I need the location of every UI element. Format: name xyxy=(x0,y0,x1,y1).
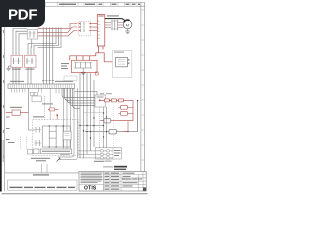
dashed feeders to bottom boxes xyxy=(21,137,27,151)
diode module D1 xyxy=(85,121,138,134)
label box above strip right xyxy=(64,76,77,81)
wire under PDF badge drop group xyxy=(43,27,53,84)
title block dark corner cell xyxy=(143,188,146,192)
controller internal rails xyxy=(42,126,70,147)
relay K3 red box xyxy=(25,55,37,67)
paper background xyxy=(0,0,149,198)
wire L2 feeder rail xyxy=(38,27,78,32)
wire fuse to bus L3 xyxy=(91,30,98,32)
label left of rectifier xyxy=(61,63,69,69)
switch S2 red mid xyxy=(48,108,59,120)
svg-text:OTIS: OTIS xyxy=(84,186,97,192)
title block grid rows xyxy=(104,172,147,192)
title block field texts xyxy=(105,173,138,190)
interface box A2 xyxy=(95,95,106,107)
label text mid xyxy=(42,103,53,104)
brake unit A1 outer box xyxy=(113,51,132,78)
header strip bottom line xyxy=(5,5,145,7)
bottom frame line above footer xyxy=(5,172,147,174)
resistor R3 xyxy=(119,99,124,102)
contactor K1 contacts xyxy=(111,20,119,30)
breaker pairs on rows xyxy=(100,150,110,159)
rectifier T1 red box xyxy=(72,60,98,72)
notes box bottom left xyxy=(8,180,78,190)
ground of rectifier xyxy=(81,71,86,75)
PCB box M xyxy=(96,148,122,159)
right margin zone ticks xyxy=(141,10,145,160)
black tie wire xyxy=(137,100,138,132)
wire drop mid xyxy=(49,88,51,119)
wire strip to interface box xyxy=(75,92,98,96)
title block left notes cell xyxy=(79,172,104,192)
controller bottom small boxes xyxy=(34,149,40,154)
wire rectifier supply bridge xyxy=(70,53,99,61)
terminal squares below strip xyxy=(30,92,33,95)
label above motor feed xyxy=(107,15,119,16)
arrow symbol under box xyxy=(57,158,61,162)
wires to frame bottom xyxy=(42,164,48,173)
resistor R2 xyxy=(112,99,117,102)
wire contactor to motor xyxy=(118,22,124,27)
resistor chain red row xyxy=(99,99,133,102)
wires switch to relay K2 xyxy=(13,29,27,56)
wire long drop left xyxy=(27,88,29,112)
wire fuse to bus L2 xyxy=(91,26,98,28)
footer caption text xyxy=(33,174,49,175)
wire L1 feeder rail xyxy=(38,24,78,29)
connector rows xyxy=(79,151,114,158)
wire relay drops to terminal strip xyxy=(13,67,31,84)
page bottom shadow xyxy=(2,193,148,194)
label left mid small xyxy=(8,142,15,143)
title block label cells fill xyxy=(104,172,121,191)
motor M1 xyxy=(123,20,132,29)
ground left of relay K2 xyxy=(6,66,11,71)
drawing frame right inner border xyxy=(140,2,142,173)
relay K2 red box xyxy=(11,55,23,67)
wires interface down to PCB box xyxy=(104,107,107,148)
disconnect switch Q1 xyxy=(27,30,37,39)
labels above interface xyxy=(100,92,112,95)
scan black left edge xyxy=(0,0,2,192)
bundle A strip drops to interface xyxy=(62,88,95,108)
left margin zone marks xyxy=(3,30,4,158)
wire fuse to bus L1 xyxy=(91,23,98,25)
wire left drop continues xyxy=(28,113,34,130)
wire bus to contactor phase lines xyxy=(105,22,111,27)
terminal bus X0 tall red box xyxy=(97,15,105,46)
varistor RV1 on red return xyxy=(104,118,111,123)
dashed zone divider xyxy=(113,105,115,147)
fuse block F1 dashed box xyxy=(79,21,91,36)
capacitor module C2 xyxy=(118,111,133,115)
relay labels xyxy=(12,69,35,70)
controller U1 dashed box xyxy=(33,120,78,156)
bundle B verticals into control box xyxy=(58,88,78,159)
junction box small xyxy=(32,96,41,102)
controller sub box 2 xyxy=(63,131,71,140)
wire red bus drop to brake rectifier xyxy=(99,46,114,62)
labels above terminal strip xyxy=(10,81,73,82)
label below connector rows xyxy=(94,161,104,162)
header cell dividers xyxy=(45,2,137,6)
terminal strip X1 xyxy=(8,84,75,88)
wire PE thick feed to motor xyxy=(105,19,126,21)
ladder drops rectifier to connector rows xyxy=(80,73,94,158)
svg-text:BRAKE CIRCUIT: BRAKE CIRCUIT xyxy=(122,177,142,181)
svg-text:M: M xyxy=(126,23,129,28)
frame top line xyxy=(5,1,145,3)
left margin rotated text xyxy=(3,140,4,162)
title block outer xyxy=(79,172,146,192)
capacitor module C1 xyxy=(118,105,133,109)
wire L3 feeder rail xyxy=(38,31,78,36)
wire dashed drop xyxy=(44,96,46,120)
controller sub box 1 xyxy=(49,131,56,138)
short drops below strip xyxy=(12,88,60,93)
controller bottom connector strip xyxy=(41,149,72,154)
left frame tiny labels mid xyxy=(6,117,10,141)
wire red bus stub xyxy=(102,46,104,50)
dashed riser at interface xyxy=(99,107,101,148)
pressure switch B1 red xyxy=(6,107,29,116)
contact set left in controller xyxy=(35,127,42,146)
wire red right loop xyxy=(100,100,133,120)
resistor R1 xyxy=(105,99,110,102)
brake coil Y1 inner box xyxy=(116,58,130,67)
customer note above title block xyxy=(103,166,127,170)
svg-text:PDF: PDF xyxy=(8,7,37,24)
tick symbols on drops above strip xyxy=(42,80,54,82)
sensor red square xyxy=(95,72,98,75)
ladder cross rail with junctions xyxy=(79,117,103,138)
ground below motor xyxy=(125,29,130,34)
PDF badge xyxy=(0,0,45,27)
label below pcb box xyxy=(105,161,112,162)
label under control box xyxy=(31,158,50,162)
drawing frame left border xyxy=(4,2,6,191)
label above control box xyxy=(33,116,44,117)
ladder faint cross rail xyxy=(84,112,104,114)
drawing frame right outer border xyxy=(144,2,146,191)
title block label sub divider xyxy=(109,172,111,192)
junction dots on risers xyxy=(103,112,107,137)
wire elbows to relay K3 xyxy=(28,27,61,55)
header greeked text xyxy=(59,4,140,5)
